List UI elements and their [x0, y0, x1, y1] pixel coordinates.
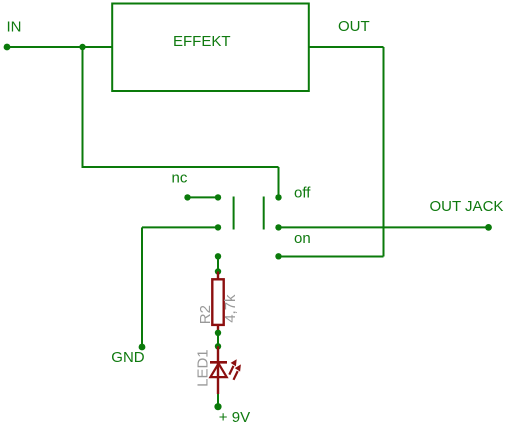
svg-text:4,7k: 4,7k [222, 294, 239, 323]
switch S1 bar left [233, 197, 235, 230]
pin R2 top [217, 272, 219, 280]
LED1 cathode pin [217, 346, 219, 394]
svg-text:OUT: OUT [338, 18, 370, 35]
wire pole left [142, 226, 218, 228]
svg-text:IN: IN [7, 18, 22, 35]
svg-text:OUT JACK: OUT JACK [430, 198, 504, 215]
wire junction down [82, 47, 84, 167]
wire pole right to out jack [279, 226, 489, 228]
LED1 cathode bar [210, 361, 227, 364]
node OUT JACK pin dot [485, 224, 492, 231]
pin R2 bottom [217, 325, 219, 333]
node nc right dot [215, 194, 221, 200]
junction IN net [79, 44, 85, 50]
svg-text:EFFEKT: EFFEKT [173, 33, 231, 50]
node resistor bottom pin dot [215, 330, 221, 336]
node on contact [275, 253, 281, 259]
wire OUT from box [309, 46, 384, 48]
node GND pin dot [139, 344, 146, 351]
node resistor top pin dot [215, 268, 221, 274]
resistor R2 body [212, 279, 223, 325]
wire row3 to resistor [217, 256, 219, 271]
LED1 arrow 2 [234, 364, 241, 379]
node 9V pin dot [214, 403, 221, 410]
node off contact [275, 194, 281, 200]
svg-text:off: off [294, 184, 311, 201]
LED1 arrow 1 [229, 359, 236, 374]
wire GND down [141, 227, 143, 347]
wire IN to EFFEKT box [7, 46, 112, 48]
switch S1 bar right [263, 197, 265, 230]
svg-text:on: on [294, 230, 311, 247]
svg-text:nc: nc [172, 169, 188, 186]
svg-text:LED1: LED1 [194, 349, 211, 387]
node pole right dot [275, 224, 281, 230]
wire nc stub [188, 196, 219, 198]
LED1 triangle [210, 364, 226, 378]
wire OUT down [383, 47, 385, 257]
node pole left dot [215, 224, 221, 230]
wire OUT to on contact [279, 256, 384, 258]
wire down to off contact [278, 167, 280, 197]
wire horizontal to switch off [82, 166, 279, 168]
svg-text:GND: GND [111, 349, 145, 366]
box U1 EFFEKT [112, 4, 309, 92]
node nc left dot [184, 194, 190, 200]
svg-text:R2: R2 [197, 305, 214, 324]
node IN pin dot [4, 44, 11, 51]
svg-text:+ 9V: + 9V [219, 409, 250, 426]
node row3 left dot [215, 253, 221, 259]
wire LED to 9V [217, 394, 219, 407]
node LED top pin dot [215, 343, 221, 349]
wire resistor to LED [217, 333, 219, 347]
